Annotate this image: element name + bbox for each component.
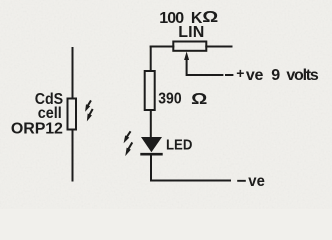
light arrow 2 onto CdS cell: [85, 108, 95, 122]
svg-text:ve: ve: [246, 67, 264, 84]
svg-text:+: +: [236, 65, 244, 81]
wire: CdS cell bottom lead: [72, 130, 74, 181]
LED cathode bar: [140, 153, 162, 156]
svg-text:Ω: Ω: [191, 91, 207, 108]
wire: dash before +ve label: [226, 74, 232, 76]
label: LED: [166, 136, 192, 153]
svg-text:LED: LED: [166, 136, 192, 153]
label: -ve text: [248, 173, 265, 191]
wire: LED cathode to -ve rail corner: [151, 155, 230, 181]
svg-text:Ω: Ω: [202, 9, 218, 26]
light arrow 1 onto CdS cell: [83, 99, 93, 113]
label: CdS: [35, 90, 63, 108]
svg-text:ORP12: ORP12: [11, 121, 63, 138]
svg-text:LIN: LIN: [178, 24, 204, 41]
svg-text:ve: ve: [248, 173, 265, 191]
wire: pot right lead: [206, 46, 231, 48]
light arrow 1 from LED: [121, 130, 132, 144]
photoresistor CdS cell ORP12 body: [68, 99, 77, 130]
wire: wiper stem and rail to +ve: [187, 57, 223, 75]
light arrow 2 from LED: [123, 141, 134, 157]
potentiometer wiper arrowhead: [184, 52, 189, 61]
svg-text:390: 390: [158, 90, 181, 108]
resistor 390 ohm body: [145, 71, 155, 110]
label: cell: [38, 105, 62, 123]
wire: resistor to LED anode: [150, 110, 152, 137]
wire: pot left lead: [151, 46, 174, 48]
label: -ve minus stroke: [237, 180, 246, 182]
LED triangle (anode): [141, 137, 162, 152]
potentiometer 100K LIN body: [173, 42, 206, 51]
wire: CdS cell top lead: [72, 48, 74, 99]
label: 390 of resistor value: [158, 90, 181, 108]
wire: pot left lead down to 390 ohm resistor: [150, 47, 152, 72]
svg-text:9: 9: [271, 67, 280, 84]
svg-text:volts: volts: [286, 67, 318, 84]
